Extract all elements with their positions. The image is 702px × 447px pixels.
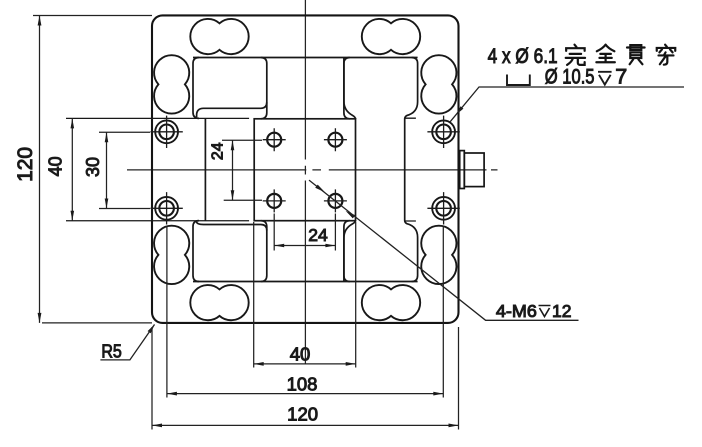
- svg-text:30: 30: [83, 157, 103, 177]
- svg-text:Ø 10.5: Ø 10.5: [545, 64, 595, 88]
- svg-text:120: 120: [287, 404, 318, 425]
- svg-text:40: 40: [45, 156, 65, 176]
- svg-text:24: 24: [210, 142, 227, 160]
- svg-text:12: 12: [552, 301, 571, 321]
- svg-text:108: 108: [287, 373, 318, 394]
- svg-text:40: 40: [290, 343, 311, 364]
- svg-text:7: 7: [615, 64, 627, 88]
- svg-text:24: 24: [308, 225, 328, 245]
- svg-text:R5: R5: [101, 341, 122, 362]
- svg-text:4-M6: 4-M6: [496, 301, 537, 321]
- svg-text:120: 120: [14, 147, 37, 182]
